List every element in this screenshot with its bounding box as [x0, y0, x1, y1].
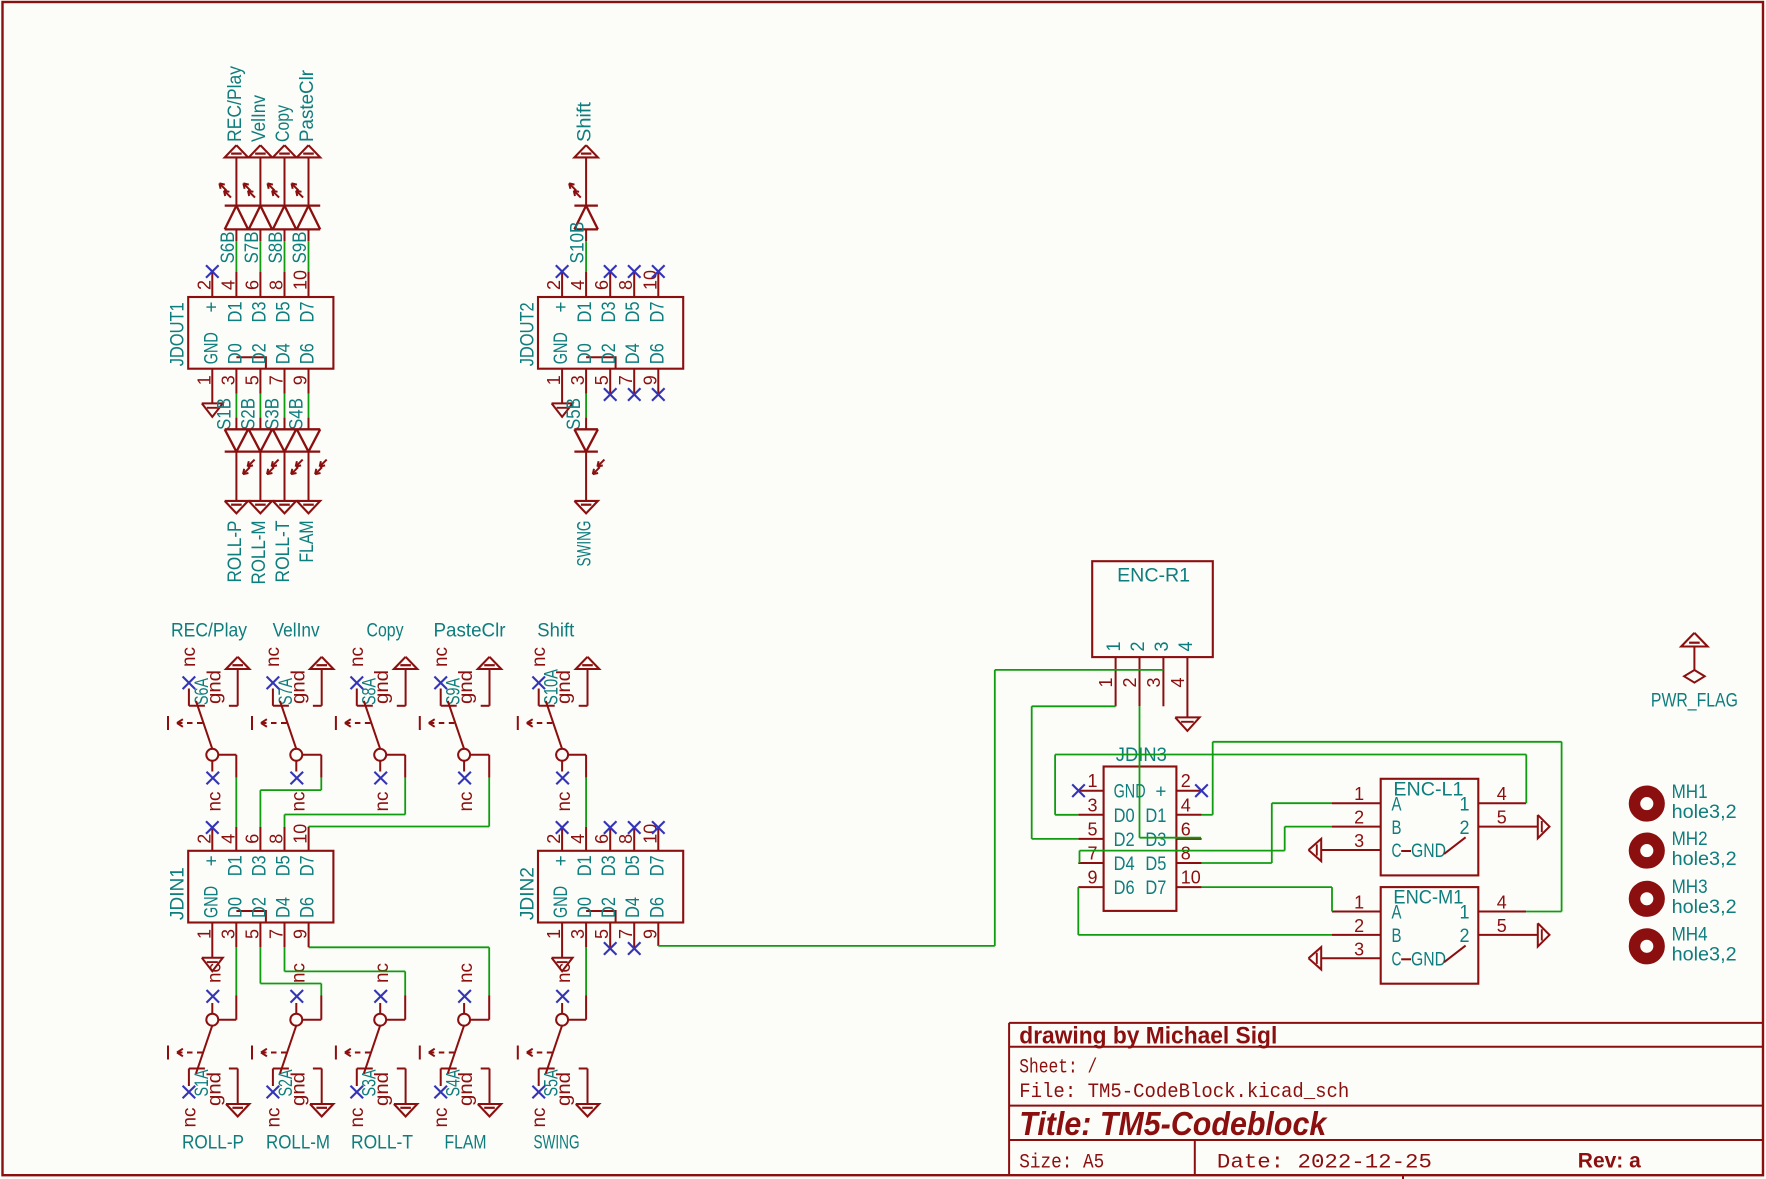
hierarchical label ROLL-T	[273, 501, 296, 583]
LED cathode bar line	[225, 450, 321, 452]
svg-text:D5: D5	[274, 302, 295, 323]
pin 5 of JDIN3	[1078, 838, 1103, 840]
pin 1 of JDIN3	[1078, 790, 1103, 792]
svg-text:S1B: S1B	[214, 398, 235, 430]
svg-text:3: 3	[1152, 642, 1173, 652]
ground at JDIN1 pin 1	[202, 958, 223, 972]
svg-text:Date: 2022-12-25: Date: 2022-12-25	[1217, 1152, 1432, 1175]
svg-text:nc: nc	[347, 1108, 368, 1128]
connector JDIN3	[1088, 745, 1201, 911]
svg-text:nc: nc	[456, 792, 477, 812]
wire	[568, 755, 586, 851]
svg-text:nc: nc	[529, 1108, 550, 1128]
svg-text:3: 3	[1354, 831, 1364, 851]
svg-text:2: 2	[1354, 916, 1364, 936]
no-connect X at switch upper pin	[458, 990, 471, 1003]
svg-text:4: 4	[1168, 678, 1188, 688]
mounting hole MH4	[1635, 925, 1737, 966]
hierarchical label ROLL-P	[225, 501, 248, 583]
no-connect X at JDOUT2 pin 2	[556, 265, 569, 297]
svg-text:D6: D6	[298, 897, 319, 918]
svg-text:D7: D7	[298, 855, 319, 876]
no-connect X at switch bottom-left pin	[532, 1086, 545, 1099]
svg-text:5: 5	[1497, 916, 1507, 936]
no-connect X at JDIN2 pin 8	[628, 821, 641, 851]
svg-text:7: 7	[1088, 844, 1098, 864]
svg-text:ROLL-T: ROLL-T	[351, 1133, 413, 1154]
svg-text:D4: D4	[623, 897, 644, 918]
wire JDIN3 pin8 to ENC-L1 pin1	[1202, 803, 1332, 863]
wire	[259, 452, 261, 501]
LED base line	[225, 428, 321, 430]
svg-text:Size: A5: Size: A5	[1019, 1152, 1104, 1175]
svg-text:GND: GND	[1114, 782, 1146, 803]
svg-text:nc: nc	[431, 647, 452, 667]
pin 7 of JDIN3	[1078, 862, 1103, 864]
svg-text:SWING: SWING	[575, 521, 596, 567]
svg-text:9: 9	[291, 929, 311, 939]
svg-text:nc: nc	[204, 963, 225, 983]
svg-text:D0: D0	[575, 343, 596, 364]
wire	[284, 229, 286, 297]
svg-text:+: +	[551, 855, 572, 866]
svg-text:hole3,2: hole3,2	[1672, 849, 1737, 870]
switch S5A	[518, 1003, 575, 1128]
switch S8A	[336, 647, 393, 772]
svg-text:D3: D3	[249, 302, 270, 323]
wire	[218, 755, 236, 851]
svg-text:nc: nc	[554, 963, 575, 983]
svg-text:D0: D0	[225, 897, 246, 918]
no-connect X at JDOUT1 pin 2	[206, 265, 219, 297]
wire	[284, 369, 286, 430]
ground at JDIN2 pin 1	[552, 958, 573, 972]
svg-text:B: B	[1392, 818, 1402, 839]
hierarchical label PasteClr	[297, 69, 320, 157]
svg-text:gnd: gnd	[204, 1072, 225, 1106]
svg-text:D5: D5	[623, 302, 644, 323]
wire	[568, 923, 586, 1020]
wire JDIN3 pin3 to ENC-L1 pin4	[1055, 755, 1526, 815]
svg-text:D4: D4	[1114, 854, 1135, 875]
LED base line	[574, 428, 598, 430]
svg-text:nc: nc	[554, 792, 575, 812]
svg-text:9: 9	[1088, 868, 1098, 888]
svg-text:Copy: Copy	[273, 105, 294, 142]
svg-text:GND: GND	[551, 332, 572, 364]
no-connect X at JDIN1 pin 2	[206, 821, 219, 851]
pin 3 of ENC-L1	[1321, 849, 1381, 851]
connector JDIN1	[168, 824, 334, 939]
svg-text:D2: D2	[249, 897, 270, 918]
no-connect X at switch upper pin	[207, 990, 220, 1003]
LED (to ROLL-P)	[225, 429, 255, 474]
no-connect X at JDOUT2 pin 9	[652, 369, 665, 401]
ground label at ENC-L1 pin 3	[1309, 839, 1322, 861]
wire	[235, 229, 237, 297]
svg-text:REC/Play: REC/Play	[171, 621, 247, 642]
svg-text:1: 1	[1354, 893, 1364, 913]
LED cathode bar line	[574, 450, 598, 452]
connector JDIN2	[518, 824, 684, 939]
wire	[218, 923, 236, 1020]
pin 3 of ENC-M1	[1321, 957, 1381, 959]
wire	[308, 229, 310, 297]
svg-text:A: A	[1392, 903, 1402, 924]
LED (to ROLL-M)	[249, 429, 279, 474]
wire	[284, 452, 286, 501]
svg-text:File: TM5-CodeBlock.kicad_sch: File: TM5-CodeBlock.kicad_sch	[1019, 1081, 1349, 1104]
connector JDOUT2	[518, 270, 684, 385]
svg-text:S3B: S3B	[263, 398, 284, 430]
svg-text:D3: D3	[599, 855, 620, 876]
svg-text:C: C	[1392, 841, 1402, 862]
svg-text:D5: D5	[1145, 854, 1166, 875]
svg-text:B: B	[1392, 926, 1402, 947]
no-connect X at JDOUT2 pin 5	[604, 369, 617, 401]
wire	[235, 369, 237, 430]
svg-text:Rev: a: Rev: a	[1578, 1150, 1641, 1173]
svg-text:nc: nc	[204, 792, 225, 812]
pin 4 of JDIN3	[1176, 814, 1201, 816]
svg-text:FLAM: FLAM	[445, 1133, 487, 1154]
svg-text:5: 5	[1497, 808, 1507, 828]
no-connect X at switch upper pin	[374, 990, 387, 1003]
power symbol gnd	[478, 1069, 501, 1117]
svg-text:nc: nc	[347, 647, 368, 667]
svg-text:JDIN1: JDIN1	[168, 867, 189, 920]
ground label at ENC-M1 pin 3	[1309, 947, 1322, 969]
switch S2A	[252, 1003, 309, 1128]
pin 4 of ENC-M1	[1478, 911, 1526, 913]
wire	[308, 157, 310, 205]
svg-text:5: 5	[1088, 819, 1098, 839]
no-connect X at switch bottom-left pin	[267, 1086, 280, 1099]
power symbol +	[478, 657, 501, 706]
switch S9A	[420, 647, 477, 772]
mounting hole MH1	[1635, 782, 1737, 823]
svg-text:gnd: gnd	[372, 1072, 393, 1106]
no-connect X at JDIN2 pin 5	[604, 923, 617, 955]
svg-text:1: 1	[1354, 784, 1364, 804]
switch S1A	[168, 1003, 225, 1128]
svg-text:gnd: gnd	[456, 1072, 477, 1106]
svg-text:D0: D0	[225, 343, 246, 364]
wire JDIN3 pin7 to ENC-L1 pin2	[1080, 827, 1333, 863]
svg-text:4: 4	[1176, 641, 1197, 651]
svg-text:nc: nc	[456, 963, 477, 983]
power symbol +	[576, 657, 599, 706]
wire	[284, 157, 286, 205]
wire JDIN2 pin9 to ENC-R1 pin3	[658, 670, 1163, 946]
svg-text:ROLL-M: ROLL-M	[249, 521, 270, 585]
switch S6A	[168, 647, 225, 772]
svg-text:gnd: gnd	[372, 670, 393, 704]
no-connect X at JDOUT2 pin 6	[604, 265, 617, 297]
svg-text:ROLL-T: ROLL-T	[273, 520, 294, 582]
hierarchical label Shift	[574, 101, 598, 157]
svg-text:D1: D1	[575, 302, 596, 323]
pin 3 of JDIN3	[1078, 814, 1103, 816]
svg-text:S8B: S8B	[266, 232, 287, 264]
pin 5 of ENC-L1	[1478, 826, 1538, 828]
svg-text:VelInv: VelInv	[273, 621, 320, 642]
svg-text:VelInv: VelInv	[249, 95, 270, 142]
svg-text:10: 10	[1181, 868, 1201, 888]
wire ENC-R1 pin1 to JDIN3 pin5	[1032, 706, 1116, 839]
svg-text:D5: D5	[623, 855, 644, 876]
output label at ENC-L1 pin 5	[1538, 815, 1550, 838]
svg-text:D2: D2	[1114, 830, 1135, 851]
svg-text:REC/Play: REC/Play	[225, 66, 246, 142]
wire	[308, 452, 310, 501]
svg-text:4: 4	[1497, 893, 1507, 913]
wire	[285, 755, 406, 851]
pin 1 of ENC-R1	[1115, 657, 1117, 706]
svg-text:1: 1	[1460, 794, 1470, 815]
svg-text:gnd: gnd	[456, 670, 477, 704]
svg-text:hole3,2: hole3,2	[1672, 802, 1737, 823]
svg-text:4: 4	[1497, 784, 1507, 804]
svg-text:S5B: S5B	[564, 398, 585, 430]
svg-text:MH4: MH4	[1672, 925, 1708, 946]
no-connect X at switch upper pin	[556, 990, 569, 1003]
wire	[585, 157, 587, 205]
rotary encoder ENC-R1	[1092, 561, 1213, 657]
svg-text:Shift: Shift	[537, 621, 575, 642]
LED (to ROLL-T)	[273, 429, 303, 474]
wire	[260, 923, 321, 1020]
svg-text:D1: D1	[225, 855, 246, 876]
svg-text:nc: nc	[431, 1108, 452, 1128]
svg-text:+: +	[1155, 782, 1166, 803]
wire	[308, 369, 310, 430]
wire	[309, 755, 490, 851]
svg-text:nc: nc	[288, 792, 309, 812]
wire	[211, 923, 213, 958]
svg-text:MH2: MH2	[1672, 829, 1708, 850]
svg-text:nc: nc	[288, 963, 309, 983]
svg-text:Sheet: /: Sheet: /	[1019, 1057, 1097, 1080]
no-connect X at switch top-left pin	[434, 677, 447, 690]
pin 10 of JDIN3	[1176, 886, 1201, 888]
no-connect X at switch lower pin	[556, 772, 569, 785]
no-connect X at JDIN3 pin 1	[1072, 784, 1085, 797]
svg-text:1: 1	[1104, 642, 1125, 652]
output label at ENC-M1 pin 5	[1538, 923, 1550, 946]
pin 1 of ENC-L1	[1332, 802, 1381, 804]
wire	[259, 369, 261, 430]
svg-text:nc: nc	[372, 792, 393, 812]
LED base line	[574, 228, 598, 230]
svg-text:Title: TM5-Codeblock: Title: TM5-Codeblock	[1019, 1105, 1328, 1142]
wire	[259, 157, 261, 205]
wire JDIN3 pin9 to ENC-M1 pin2	[1078, 887, 1332, 935]
svg-text:FLAM: FLAM	[297, 521, 318, 563]
svg-text:gnd: gnd	[288, 670, 309, 704]
rotary encoder ENC-M1	[1354, 887, 1507, 984]
switch S4A	[420, 1003, 477, 1128]
svg-text:2: 2	[1460, 926, 1470, 947]
power symbol gnd	[394, 1069, 417, 1117]
svg-text:D0: D0	[1114, 806, 1135, 827]
wire	[260, 755, 321, 851]
pin 3 of ENC-R1	[1162, 657, 1164, 706]
svg-text:PWR_FLAG: PWR_FLAG	[1651, 691, 1738, 712]
svg-text:JDOUT1: JDOUT1	[168, 302, 189, 366]
LED (to FLAM)	[297, 429, 327, 474]
no-connect X at switch upper pin	[291, 990, 304, 1003]
switch S3A	[336, 1003, 393, 1128]
svg-text:nc: nc	[179, 647, 200, 667]
svg-text:hole3,2: hole3,2	[1672, 897, 1737, 918]
svg-text:3: 3	[1144, 678, 1164, 688]
svg-text:gnd: gnd	[204, 670, 225, 704]
switch S10A	[518, 647, 575, 772]
svg-text:D2: D2	[599, 343, 620, 364]
svg-text:S7B: S7B	[242, 232, 263, 264]
pin 8 of JDIN3	[1176, 862, 1201, 864]
svg-text:D1: D1	[225, 302, 246, 323]
no-connect X at switch top-left pin	[183, 677, 196, 690]
hierarchical label VelInv	[249, 95, 272, 158]
svg-text:D7: D7	[1145, 878, 1166, 899]
connector JDOUT1	[168, 270, 334, 385]
svg-text:D6: D6	[647, 897, 668, 918]
svg-text:C: C	[1392, 950, 1402, 971]
no-connect X at switch lower pin	[374, 772, 387, 785]
svg-text:PasteClr: PasteClr	[434, 621, 507, 642]
svg-text:nc: nc	[372, 963, 393, 983]
LED (to Copy)	[268, 183, 297, 229]
svg-text:nc: nc	[529, 647, 550, 667]
svg-text:ENC-L1: ENC-L1	[1393, 779, 1463, 800]
pin 2 of ENC-M1	[1332, 934, 1381, 936]
hierarchical label ROLL-M	[249, 501, 272, 585]
svg-text:JDIN2: JDIN2	[518, 867, 539, 920]
svg-text:D4: D4	[274, 343, 295, 364]
wire ENC-R1 pin2 to JDIN3 pin6	[1140, 706, 1202, 837]
svg-text:ROLL-P: ROLL-P	[182, 1133, 244, 1154]
wire	[211, 369, 213, 404]
svg-text:6: 6	[1181, 819, 1191, 839]
svg-text:GND: GND	[1411, 950, 1446, 971]
svg-text:GND: GND	[1411, 841, 1446, 862]
svg-text:S2B: S2B	[238, 398, 259, 430]
svg-text:2: 2	[1120, 678, 1140, 688]
no-connect X at JDOUT2 pin 8	[628, 265, 641, 297]
svg-text:+: +	[201, 302, 222, 313]
ground at JDOUT2 pin 1	[552, 403, 573, 417]
power flag PWR_FLAG	[1651, 633, 1738, 712]
pin 2 of ENC-R1	[1139, 657, 1141, 706]
svg-text:D3: D3	[1145, 830, 1166, 851]
rotary encoder ENC-L1	[1354, 779, 1507, 876]
svg-text:A: A	[1392, 794, 1402, 815]
svg-text:S6B: S6B	[218, 232, 239, 264]
svg-text:1: 1	[1088, 771, 1098, 791]
svg-text:PasteClr: PasteClr	[297, 69, 318, 142]
no-connect X at JDIN2 pin 2	[556, 821, 569, 851]
svg-text:S4B: S4B	[287, 398, 308, 430]
svg-text:3: 3	[1088, 795, 1098, 815]
pin 1 of ENC-M1	[1332, 911, 1381, 913]
no-connect X at switch top-left pin	[532, 677, 545, 690]
no-connect X at JDIN2 pin 6	[604, 821, 617, 851]
power symbol +	[394, 657, 417, 706]
pin 4 of ENC-R1	[1186, 657, 1188, 717]
svg-text:SWING: SWING	[534, 1133, 580, 1154]
svg-text:ROLL-M: ROLL-M	[266, 1133, 330, 1154]
mounting hole MH3	[1635, 877, 1737, 918]
no-connect X at switch bottom-left pin	[434, 1086, 447, 1099]
pin 5 of ENC-M1	[1478, 934, 1538, 936]
svg-text:GND: GND	[551, 886, 572, 918]
svg-text:1: 1	[1096, 678, 1116, 688]
svg-text:Shift: Shift	[575, 101, 596, 142]
power symbol +	[226, 657, 249, 706]
svg-text:4: 4	[1181, 795, 1191, 815]
pin 2 of ENC-L1	[1332, 826, 1381, 828]
svg-text:GND: GND	[201, 886, 222, 918]
pin 6 of JDIN3	[1176, 838, 1201, 840]
svg-text:D2: D2	[599, 897, 620, 918]
ground at JDOUT1 pin 1	[202, 403, 223, 417]
svg-text:+: +	[551, 302, 572, 313]
svg-text:MH1: MH1	[1672, 782, 1708, 803]
LED base line	[225, 228, 321, 230]
power symbol gnd	[310, 1069, 333, 1117]
LED (to SWING)	[574, 429, 604, 474]
wire	[585, 229, 587, 297]
svg-text:2: 2	[1460, 818, 1470, 839]
wire JDIN3 pin4 to ENC-M1 pin4	[1202, 742, 1562, 912]
wire	[235, 452, 237, 501]
svg-text:D7: D7	[647, 302, 668, 323]
LED cathode bar line	[225, 204, 321, 206]
svg-text:nc: nc	[263, 647, 284, 667]
svg-text:2: 2	[1354, 808, 1364, 828]
svg-text:GND: GND	[201, 332, 222, 364]
wire	[235, 157, 237, 205]
svg-text:D6: D6	[298, 343, 319, 364]
svg-text:gnd: gnd	[288, 1072, 309, 1106]
LED (to PasteClr)	[292, 183, 321, 229]
svg-text:D6: D6	[647, 343, 668, 364]
svg-text:D2: D2	[249, 343, 270, 364]
no-connect X at JDOUT2 pin 7	[628, 369, 641, 401]
no-connect X at JDIN3 pin 2	[1195, 784, 1208, 797]
wire	[561, 369, 563, 404]
no-connect X at switch top-left pin	[351, 677, 364, 690]
wire	[259, 229, 261, 297]
svg-text:8: 8	[1181, 844, 1191, 864]
no-connect X at JDIN2 pin 10	[652, 821, 665, 851]
svg-text:D7: D7	[298, 302, 319, 323]
LED (to Shift)	[569, 183, 598, 229]
wire	[309, 923, 490, 1020]
wire	[585, 452, 587, 501]
wire JDIN3 pin10 to ENC-M1 pin1	[1202, 887, 1332, 911]
pin 2 of JDIN3	[1176, 790, 1201, 792]
svg-text:D4: D4	[623, 343, 644, 364]
hierarchical label FLAM	[297, 501, 320, 563]
svg-text:ENC-M1: ENC-M1	[1393, 888, 1463, 909]
svg-text:D5: D5	[274, 855, 295, 876]
svg-text:D1: D1	[1145, 806, 1166, 827]
svg-text:S10B: S10B	[568, 222, 589, 264]
no-connect X at switch bottom-left pin	[183, 1086, 196, 1099]
